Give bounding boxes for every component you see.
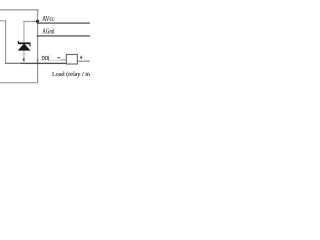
riser darker segment at junction (37, 20, 38, 24)
diode D1 cathode bar (18, 42, 31, 44)
left riser wire (5, 20, 6, 63)
junction nub DO on bus (37, 59, 38, 61)
vertical bus wire (37, 9, 38, 83)
diode wire vertical (23, 21, 24, 63)
diode D1 zener tick right down (29, 44, 30, 46)
load box (66, 55, 77, 65)
minus polarity sign (57, 56, 60, 59)
junction nub AVcc (37, 22, 39, 24)
top rail (0, 9, 39, 10)
svg-text:AGnd: AGnd (42, 28, 54, 36)
junction nub AGnd (37, 35, 39, 37)
circuit schematic: sensor pins AVcc/AGnd/DO, protection zener diode, load (relay) (0, 0, 90, 90)
junction dash node on diode wire (23, 58, 25, 60)
left stub wire (0, 20, 6, 21)
junction nub rail-bus crossing (37, 63, 38, 65)
svg-text:DO(: DO( (42, 55, 50, 62)
junction dot node at bus (36, 20, 39, 23)
AGnd pin line (38, 35, 91, 36)
wire into load box (60, 59, 66, 60)
diode D1 anode triangle (18, 44, 31, 51)
diode D1 halo (17, 43, 31, 51)
diode D1 zener tick left up (18, 41, 19, 43)
ground rail dark segment (21, 63, 67, 64)
svg-text:Load (relay / in: Load (relay / in (52, 71, 90, 78)
DO faint line to load (50, 59, 61, 62)
wire darker segment near junction (34, 21, 38, 22)
AVcc pin line (38, 22, 91, 23)
bottom rail (0, 82, 38, 83)
ground rail left light segment (5, 63, 21, 64)
wire out of load box (78, 61, 90, 62)
plus polarity sign (80, 56, 83, 59)
svg-text:AVcc: AVcc (42, 15, 54, 23)
wire from diode top to bus (23, 21, 38, 22)
